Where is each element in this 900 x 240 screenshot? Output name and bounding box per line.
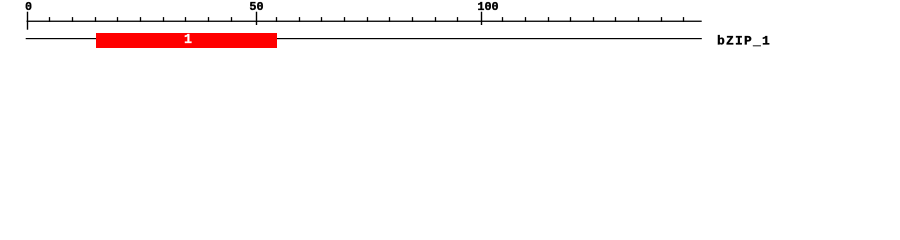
svg-text:100: 100: [477, 0, 498, 14]
svg-text:bZIP_1: bZIP_1: [717, 34, 771, 49]
domain box 1 (red): [96, 33, 277, 48]
ruler minor ticks (every 5 residues): [49, 17, 684, 22]
svg-text:50: 50: [249, 0, 263, 14]
sequence line: [26, 38, 702, 39]
ruler major tick 0 (long, extends below ruler): [27, 12, 28, 30]
ruler line: [27, 21, 702, 22]
ruler major tick 50: [256, 12, 257, 25]
ruler major tick 100: [481, 12, 482, 25]
svg-text:0: 0: [25, 0, 32, 14]
svg-text:1: 1: [184, 33, 192, 48]
background: [0, 0, 900, 58]
